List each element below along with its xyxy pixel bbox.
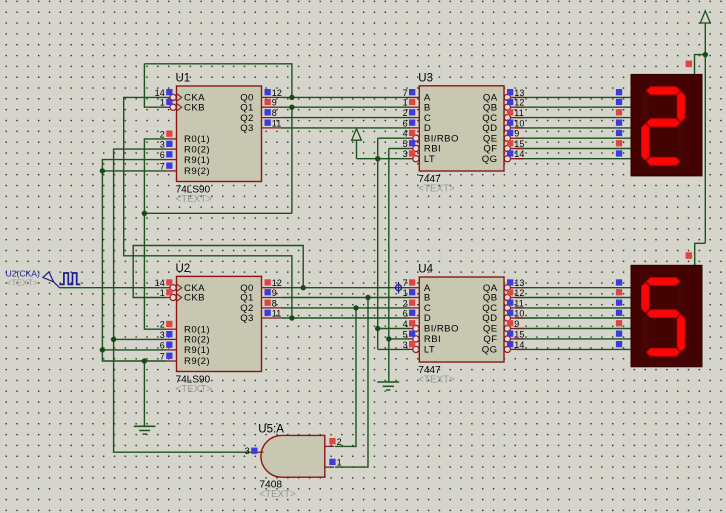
svg-text:R9(2): R9(2) — [184, 166, 210, 177]
svg-text:U2: U2 — [176, 263, 191, 275]
svg-text:14: 14 — [155, 88, 165, 98]
svg-text:R9(1): R9(1) — [184, 155, 210, 166]
svg-text:3: 3 — [403, 149, 408, 159]
svg-text:Q3: Q3 — [240, 313, 254, 324]
svg-text:Q3: Q3 — [240, 123, 254, 134]
svg-text:8: 8 — [272, 298, 277, 308]
svg-text:<TEXT>: <TEXT> — [418, 184, 455, 195]
svg-text:Q1: Q1 — [240, 293, 254, 304]
svg-text:9: 9 — [272, 98, 277, 108]
svg-text:LT: LT — [424, 154, 435, 165]
svg-text:2: 2 — [160, 129, 165, 139]
svg-text:1: 1 — [403, 288, 408, 298]
svg-text:R9(1): R9(1) — [184, 345, 210, 356]
svg-text:7: 7 — [403, 278, 408, 288]
svg-text:9: 9 — [514, 129, 519, 139]
svg-text:9: 9 — [514, 319, 519, 329]
svg-text:LT: LT — [424, 345, 435, 356]
svg-text:2: 2 — [403, 108, 408, 118]
svg-text:Q1: Q1 — [240, 102, 254, 113]
svg-text:B: B — [424, 293, 431, 304]
svg-text:<TEXT>: <TEXT> — [176, 384, 213, 395]
svg-text:U5:A: U5:A — [258, 424, 284, 436]
svg-text:3: 3 — [160, 140, 165, 150]
svg-text:R0(2): R0(2) — [184, 144, 210, 155]
svg-text:4: 4 — [403, 129, 408, 139]
svg-text:U1: U1 — [176, 73, 191, 85]
svg-text:11: 11 — [514, 298, 524, 308]
svg-text:12: 12 — [272, 88, 282, 98]
svg-text:3: 3 — [160, 330, 165, 340]
svg-text:QF: QF — [483, 334, 497, 345]
svg-text:1: 1 — [160, 98, 165, 108]
svg-text:QE: QE — [483, 324, 498, 335]
svg-text:8: 8 — [272, 108, 277, 118]
svg-text:BI/RBO: BI/RBO — [424, 324, 459, 335]
svg-text:14: 14 — [155, 278, 165, 288]
svg-text:13: 13 — [514, 88, 524, 98]
svg-text:6: 6 — [160, 340, 165, 350]
svg-text:QG: QG — [482, 345, 498, 356]
svg-text:7: 7 — [160, 351, 165, 361]
svg-text:9: 9 — [272, 288, 277, 298]
svg-text:12: 12 — [514, 98, 524, 108]
svg-text:U4: U4 — [418, 264, 433, 276]
svg-text:U3: U3 — [418, 72, 433, 84]
svg-text:10: 10 — [514, 308, 524, 318]
svg-text:CKB: CKB — [184, 102, 205, 113]
svg-text:6: 6 — [403, 118, 408, 128]
svg-text:R0(2): R0(2) — [184, 335, 210, 346]
svg-text:D: D — [424, 313, 431, 324]
svg-text:11: 11 — [272, 118, 282, 128]
svg-text:3: 3 — [245, 446, 250, 456]
svg-text:2: 2 — [403, 298, 408, 308]
svg-text:2: 2 — [160, 320, 165, 330]
svg-text:5: 5 — [403, 139, 408, 149]
svg-text:13: 13 — [514, 278, 524, 288]
svg-text:12: 12 — [514, 288, 524, 298]
svg-text:14: 14 — [514, 340, 524, 350]
svg-text:11: 11 — [272, 308, 282, 318]
svg-text:<TEXT>: <TEXT> — [259, 489, 296, 500]
svg-text:B: B — [424, 102, 431, 113]
svg-text:QG: QG — [482, 154, 498, 165]
svg-text:1: 1 — [160, 288, 165, 298]
svg-text:15: 15 — [514, 329, 524, 339]
svg-text:6: 6 — [403, 308, 408, 318]
svg-text:5: 5 — [403, 329, 408, 339]
svg-text:QD: QD — [482, 313, 497, 324]
svg-text:14: 14 — [514, 149, 524, 159]
svg-text:QB: QB — [483, 102, 498, 113]
svg-text:CKB: CKB — [184, 293, 205, 304]
svg-text:7: 7 — [403, 88, 408, 98]
svg-text:6: 6 — [160, 150, 165, 160]
svg-text:15: 15 — [514, 139, 524, 149]
svg-text:<TEXT>: <TEXT> — [176, 194, 213, 205]
svg-text:<TEXT>: <TEXT> — [418, 375, 455, 386]
svg-text:7: 7 — [160, 161, 165, 171]
svg-text:3: 3 — [403, 340, 408, 350]
svg-text:12: 12 — [272, 278, 282, 288]
svg-text:1: 1 — [403, 98, 408, 108]
svg-text:RBI: RBI — [424, 334, 441, 345]
svg-text:QB: QB — [483, 293, 498, 304]
svg-text:R9(2): R9(2) — [184, 356, 210, 367]
svg-text:<TEXT>: <TEXT> — [6, 278, 38, 288]
svg-text:2: 2 — [337, 437, 342, 447]
svg-text:11: 11 — [514, 108, 524, 118]
svg-text:10: 10 — [514, 118, 524, 128]
svg-text:1: 1 — [337, 458, 342, 468]
svg-text:4: 4 — [403, 319, 408, 329]
